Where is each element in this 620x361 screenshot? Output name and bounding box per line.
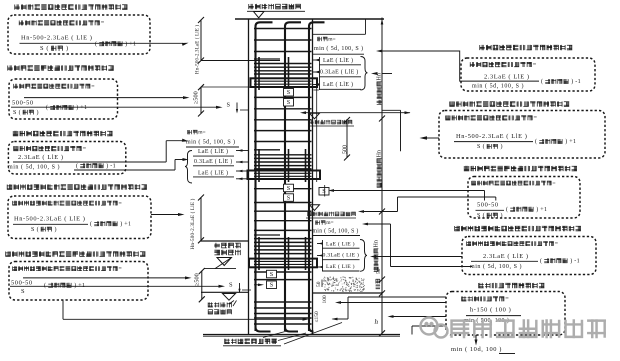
svg-text:Hn: Hn: [374, 240, 380, 247]
svg-text:min ( 10d, 100 ): min ( 10d, 100 ): [451, 346, 502, 353]
svg-text:) +1: ) +1: [563, 138, 576, 145]
svg-text:LaE ( LlE ): LaE ( LlE ): [326, 263, 355, 270]
svg-text:h: h: [375, 318, 379, 326]
svg-text:S: S: [287, 194, 291, 201]
svg-text:S: S: [287, 185, 291, 192]
svg-text:S: S: [21, 288, 25, 295]
svg-text:=: =: [119, 201, 122, 207]
svg-text:Hn-500-2.3LaE ( LlE ): Hn-500-2.3LaE ( LlE ): [456, 133, 528, 140]
svg-text:m=: m=: [328, 37, 335, 43]
svg-text:) +1: ) +1: [123, 40, 136, 47]
svg-text:0.3LaE ( LlE ): 0.3LaE ( LlE ): [323, 252, 360, 259]
svg-text:): ): [53, 226, 57, 233]
svg-text:Hn-500-2.3LaE ( LlE ): Hn-500-2.3LaE ( LlE ): [14, 216, 86, 223]
svg-text:=: =: [533, 61, 537, 68]
svg-text:LaE ( LlE ): LaE ( LlE ): [198, 170, 228, 177]
svg-text:) -1: ) -1: [104, 162, 116, 169]
svg-text:min ( 5d, 100, S ): min ( 5d, 100, S ): [314, 45, 363, 52]
svg-text:(: (: [76, 162, 80, 169]
svg-text:Hn-500-2.3LaE ( LlE ): Hn-500-2.3LaE ( LlE ): [196, 25, 201, 74]
svg-text:=: =: [101, 20, 105, 27]
svg-text:(: (: [540, 257, 544, 264]
svg-text:LaE ( LlE ): LaE ( LlE ): [323, 81, 353, 88]
svg-text:2.3LaE ( LlE ): 2.3LaE ( LlE ): [484, 74, 530, 81]
svg-text:Hn-500-2.3LaE ( LlE ): Hn-500-2.3LaE ( LlE ): [189, 198, 196, 249]
svg-text:500-50: 500-50: [477, 202, 499, 209]
svg-text:Hn-500-2.3LaE ( LlE ): Hn-500-2.3LaE ( LlE ): [21, 35, 93, 42]
svg-text:m=: m=: [326, 220, 333, 226]
svg-text:=: =: [555, 241, 558, 247]
svg-text:(: (: [95, 40, 99, 47]
svg-text:S: S: [227, 102, 231, 109]
svg-text:100: 100: [322, 295, 328, 304]
svg-text:): ): [499, 143, 503, 150]
svg-text:): ): [35, 109, 39, 116]
svg-text:min ( 5d, 100, S ): min ( 5d, 100, S ): [470, 263, 522, 270]
svg-text:LaE ( LlE ): LaE ( LlE ): [198, 148, 228, 155]
svg-text:=: =: [552, 181, 555, 187]
svg-text:=: =: [505, 296, 509, 303]
svg-text:2.3LaE ( LlE ): 2.3LaE ( LlE ): [18, 154, 64, 161]
svg-text:S (: S (: [40, 45, 51, 52]
svg-text:S: S: [322, 188, 326, 195]
svg-text:m=: m=: [198, 130, 205, 136]
svg-text:(: (: [506, 206, 510, 213]
svg-text:) +1: ) +1: [118, 220, 131, 227]
svg-text:=: =: [534, 115, 538, 122]
svg-text:500: 500: [342, 145, 348, 154]
svg-text:(: (: [90, 220, 94, 227]
svg-text:50: 50: [376, 268, 382, 274]
svg-text:=: =: [83, 145, 87, 152]
svg-text:min ( 5d, 100, S ): min ( 5d, 100, S ): [8, 163, 60, 170]
svg-text:LaE ( LlE ): LaE ( LlE ): [323, 57, 353, 64]
svg-text:S: S: [287, 89, 291, 96]
svg-text:0.3LaE ( LlE ): 0.3LaE ( LlE ): [320, 68, 359, 75]
svg-text:) -1: ) -1: [568, 257, 580, 264]
svg-text:) +1: ) +1: [74, 104, 87, 111]
svg-text:S (: S (: [477, 143, 487, 150]
svg-text:500-50: 500-50: [11, 280, 33, 287]
svg-text:0.3LaE ( LlE ): 0.3LaE ( LlE ): [194, 158, 233, 165]
svg-text:S: S: [287, 99, 291, 106]
svg-text:=: =: [119, 266, 122, 272]
svg-text:S (: S (: [31, 226, 41, 233]
svg-text:h-150 ( 100 ): h-150 ( 100 ): [470, 307, 511, 314]
svg-text:LaE ( LlE ): LaE ( LlE ): [326, 240, 355, 247]
svg-text:(: (: [46, 104, 50, 111]
svg-text:) -1: ) -1: [569, 78, 581, 85]
svg-text:S: S: [270, 271, 274, 278]
svg-text:min ( 5d, 100, S ): min ( 5d, 100, S ): [186, 139, 235, 146]
svg-text:2.3LaE ( LlE ): 2.3LaE ( LlE ): [483, 253, 529, 260]
svg-text:) +1: ) +1: [534, 206, 547, 213]
svg-text:≥500: ≥500: [193, 273, 200, 286]
svg-text:500-50: 500-50: [12, 100, 34, 107]
svg-text:S (: S (: [477, 212, 487, 219]
svg-text:): ): [64, 45, 69, 52]
svg-text:): ): [499, 212, 503, 219]
svg-text:S (: S (: [13, 109, 23, 116]
svg-text:S: S: [270, 282, 274, 289]
svg-text:Hn: Hn: [377, 150, 383, 157]
svg-text:≤150: ≤150: [314, 311, 320, 323]
svg-text:min ( 5d, 100, S ): min ( 5d, 100, S ): [472, 83, 524, 90]
svg-text:min ( 5d, 100, S ): min ( 5d, 100, S ): [313, 227, 359, 234]
svg-text:) +1: ) +1: [72, 282, 85, 289]
svg-text:50: 50: [316, 281, 322, 287]
svg-text:Hn: Hn: [377, 73, 383, 80]
svg-text:(: (: [535, 138, 539, 145]
svg-text:≥500: ≥500: [193, 91, 200, 104]
svg-text:(: (: [541, 78, 545, 85]
svg-text:(: (: [44, 282, 48, 289]
svg-text:S: S: [229, 282, 233, 289]
